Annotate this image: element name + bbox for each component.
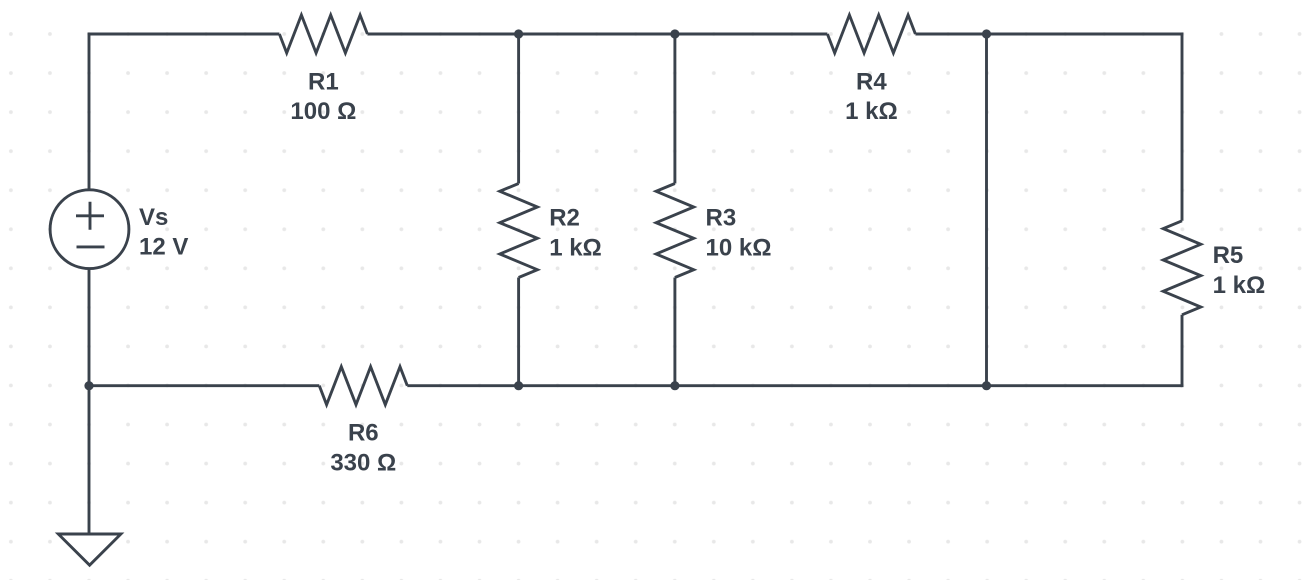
- node R3-bottom junction: [670, 381, 679, 390]
- svg-text:R6: R6: [348, 420, 379, 447]
- resistor R3: [656, 184, 694, 278]
- wire middle vertical link: [985, 34, 988, 386]
- svg-text:100 Ω: 100 Ω: [290, 98, 356, 125]
- label R1 100 Ω: [290, 68, 356, 125]
- label R3 10 kΩ: [706, 205, 772, 262]
- svg-text:R4: R4: [856, 68, 887, 95]
- wire top rail: source to R1: [89, 33, 279, 36]
- wire ground stem: [88, 386, 91, 534]
- svg-text:330 Ω: 330 Ω: [330, 449, 396, 476]
- voltage source Vs: [50, 190, 129, 269]
- label R5 1 kΩ: [1213, 242, 1266, 299]
- svg-text:Vs: Vs: [139, 204, 168, 231]
- node ground junction: [84, 381, 93, 390]
- resistor R5: [1163, 221, 1201, 315]
- svg-text:12 V: 12 V: [139, 234, 188, 261]
- resistor R4: [827, 15, 915, 53]
- svg-text:1 kΩ: 1 kΩ: [549, 234, 602, 261]
- wire top rail: R1 to R4: [367, 33, 827, 36]
- wire right rail: top corner to R5: [1181, 33, 1184, 221]
- wire R3 top lead: [673, 34, 676, 184]
- wire top rail: R4 to right corner: [915, 33, 1182, 36]
- resistor R1: [279, 15, 367, 53]
- label R2 1 kΩ: [549, 205, 602, 262]
- resistor R6: [319, 367, 407, 405]
- svg-text:10 kΩ: 10 kΩ: [706, 234, 772, 261]
- label R6 330 Ω: [330, 420, 396, 477]
- label R4 1 kΩ: [845, 68, 898, 125]
- wire left rail: source to bottom node: [88, 269, 91, 386]
- svg-text:R3: R3: [706, 205, 737, 232]
- ground: [58, 534, 121, 565]
- node link-bottom junction: [982, 381, 991, 390]
- svg-text:1 kΩ: 1 kΩ: [845, 98, 898, 125]
- node link-top junction: [982, 29, 991, 38]
- svg-text:R2: R2: [549, 205, 580, 232]
- wire bottom rail: node to R6: [89, 384, 319, 387]
- node R2-top junction: [514, 29, 523, 38]
- svg-text:R5: R5: [1213, 242, 1244, 269]
- wire R2 bottom lead: [517, 278, 520, 386]
- wire R3 bottom lead: [673, 278, 676, 386]
- svg-text:1 kΩ: 1 kΩ: [1213, 272, 1266, 299]
- label Vs 12 V: [139, 204, 188, 261]
- wire left rail: top corner to source: [88, 33, 91, 190]
- resistor R2: [500, 184, 538, 278]
- node R2-bottom junction: [514, 381, 523, 390]
- wire R2 top lead: [517, 34, 520, 184]
- node R3-top junction: [670, 29, 679, 38]
- svg-text:R1: R1: [308, 68, 339, 95]
- wire bottom rail: R6 to right corner: [407, 384, 1182, 387]
- wire right rail: R5 to bottom corner: [1181, 315, 1184, 387]
